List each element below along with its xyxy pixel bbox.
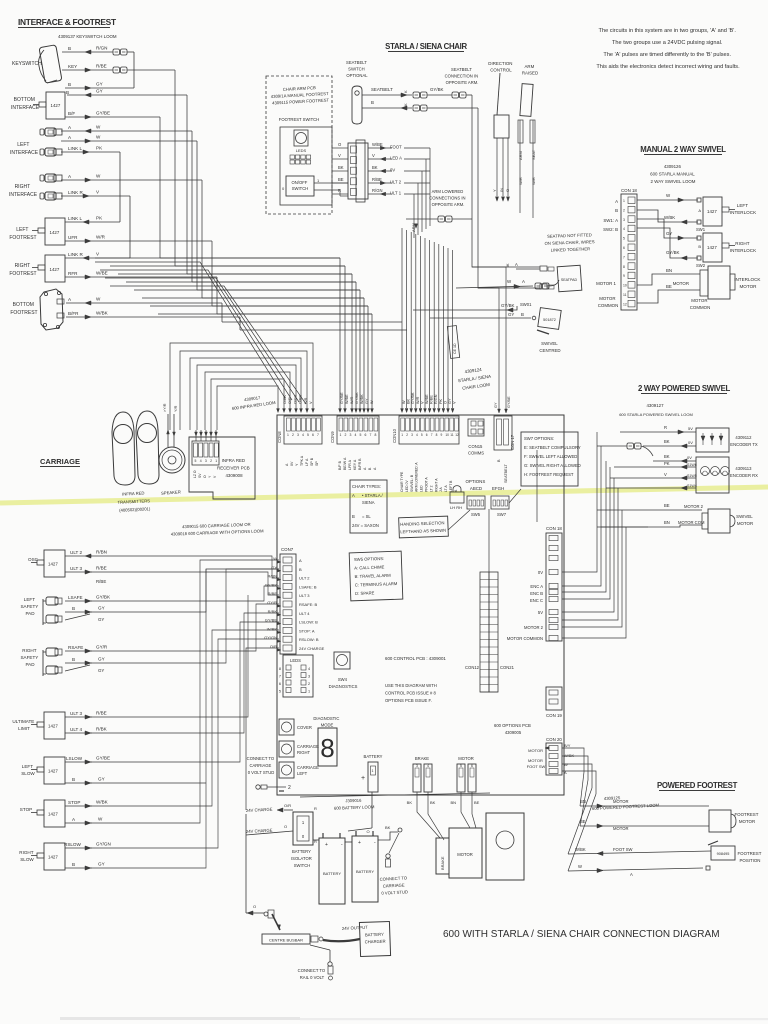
connector CON 18 manual swivel xyxy=(621,188,637,310)
svg-text:IN: IN xyxy=(499,188,504,192)
left safety pad xyxy=(20,597,62,625)
svg-text:600 STARLA POWERED SWIVEL LOOM: 600 STARLA POWERED SWIVEL LOOM xyxy=(619,412,693,417)
svg-text:SW5: SW5 xyxy=(471,512,481,517)
svg-text:BK: BK xyxy=(407,398,411,404)
svg-text:+: + xyxy=(358,840,361,846)
svg-text:LF A: LF A xyxy=(305,458,309,466)
wire verticals CON10 drop xyxy=(401,228,454,413)
svg-text:GY: GY xyxy=(508,312,514,317)
svg-text:B: B xyxy=(72,657,75,662)
svg-text:W/R: W/R xyxy=(518,177,523,185)
svg-text:LINK R: LINK R xyxy=(68,190,83,195)
wire A / W bottom xyxy=(66,297,222,306)
stud connect carriage 0 volt right xyxy=(379,833,409,896)
wire BK 0V rx xyxy=(653,454,696,463)
svg-text:CHAIR TYPE: CHAIR TYPE xyxy=(400,471,404,492)
svg-text:STOP: A: STOP: A xyxy=(299,628,315,633)
svg-text:B/Y: B/Y xyxy=(564,743,571,748)
svg-text:W: W xyxy=(578,864,582,869)
stud 2 xyxy=(256,785,291,791)
svg-text:ULT 4: ULT 4 xyxy=(70,727,83,732)
speaker xyxy=(159,447,185,473)
left interface plugs xyxy=(40,128,62,156)
svg-text:A: A xyxy=(615,199,618,204)
dip switch SW5 xyxy=(467,496,485,517)
wire LINK R / V return xyxy=(65,252,130,261)
svg-text:W/BK: W/BK xyxy=(267,626,278,631)
wire 24v charge O xyxy=(246,824,293,835)
svg-text:501872: 501872 xyxy=(543,318,556,322)
svg-text:GY/BK: GY/BK xyxy=(355,392,359,404)
wire ULT 4 R/BK xyxy=(65,727,108,736)
svg-text:ULT 3: ULT 3 xyxy=(70,566,83,571)
svg-text:SW01: SW01 xyxy=(520,302,532,307)
section title INTERFACE & FOOTREST xyxy=(18,17,117,28)
svg-text:R/GN: R/GN xyxy=(434,394,438,404)
svg-text:R: R xyxy=(338,188,341,193)
wire MOTOR COM long from pcb xyxy=(562,524,597,526)
svg-text:O: O xyxy=(366,829,369,834)
wire BE footrest motor xyxy=(580,819,709,831)
svg-text:IK: IK xyxy=(506,263,510,267)
svg-text:600 CONTROL PCB : 4309001: 600 CONTROL PCB : 4309001 xyxy=(385,656,446,661)
svg-text:KEY: KEY xyxy=(68,64,77,69)
right slow module 1427 xyxy=(19,843,65,870)
svg-text:GY/GN: GY/GN xyxy=(96,842,111,847)
svg-text:W: W xyxy=(96,125,101,130)
svg-text:A: A xyxy=(299,558,302,563)
svg-text:R: R xyxy=(664,425,667,430)
svg-text:MOTOR: MOTOR xyxy=(673,281,689,286)
footrest motor box xyxy=(709,810,736,832)
svg-text:BATTERY: BATTERY xyxy=(364,754,383,759)
svg-text:BATTERY: BATTERY xyxy=(323,871,341,876)
svg-text:1: 1 xyxy=(623,199,625,203)
svg-text:BK: BK xyxy=(372,165,378,170)
wire GY B to swivel centred switch xyxy=(430,312,536,320)
svg-text:R/BE: R/BE xyxy=(96,579,106,584)
svg-text:PK: PK xyxy=(439,398,443,404)
svg-text:B: B xyxy=(352,514,355,519)
labels above CON9 xyxy=(340,392,374,404)
svg-text:1427: 1427 xyxy=(50,230,60,235)
svg-text:Y/R: Y/R xyxy=(174,405,178,412)
svg-text:BRAKE: BRAKE xyxy=(440,856,445,870)
wire B/F / GY-BE xyxy=(65,111,160,120)
svg-text:O/BK: O/BK xyxy=(283,394,287,404)
wire GY return xyxy=(66,89,187,98)
svg-text:S1W5: S1W5 xyxy=(687,474,697,478)
svg-text:PK: PK xyxy=(664,461,670,466)
svg-text:GY: GY xyxy=(98,668,104,673)
bottom footrest plug xyxy=(40,289,64,330)
svg-text:RSAFE: B: RSAFE: B xyxy=(299,602,318,607)
direction control xyxy=(488,61,513,201)
svg-text:1: 1 xyxy=(308,690,310,694)
svg-text:CE 1D: CE 1D xyxy=(453,343,457,354)
connector CON10 xyxy=(392,416,459,492)
svg-text:K: K xyxy=(403,103,408,106)
svg-text:R/BE: R/BE xyxy=(268,591,278,596)
CON7 pin labels xyxy=(264,556,325,651)
wire B GY slow1 xyxy=(65,777,105,786)
svg-text:3: 3 xyxy=(350,433,352,437)
svg-text:908495: 908495 xyxy=(717,852,730,856)
svg-text:O/GY: O/GY xyxy=(293,394,297,404)
svg-text:R/BE: R/BE xyxy=(430,395,434,404)
svg-text:W: W xyxy=(370,400,374,404)
swivel centred switch 501872 xyxy=(537,308,561,353)
svg-text:UFR: UFR xyxy=(68,235,78,240)
svg-text:O: O xyxy=(284,824,287,829)
svg-text:A: A xyxy=(698,208,701,213)
wire RSLOW GY/GN xyxy=(64,842,111,851)
svg-text:BE: BE xyxy=(666,284,672,289)
section title 2 WAY POWERED SWIVEL xyxy=(638,384,730,394)
svg-text:W/BK: W/BK xyxy=(360,394,364,404)
wire B GY slow2 xyxy=(65,862,105,871)
svg-text:1427: 1427 xyxy=(50,267,60,272)
svg-text:6: 6 xyxy=(279,682,281,686)
osc module 1427 xyxy=(28,550,65,577)
svg-text:W/R: W/R xyxy=(531,177,536,185)
svg-text:BE: BE xyxy=(474,800,480,805)
svg-text:W/R: W/R xyxy=(416,396,420,404)
svg-text:4: 4 xyxy=(308,667,310,671)
wire bus interface rows to CON9 columns xyxy=(95,258,372,314)
svg-text:W/BK: W/BK xyxy=(96,800,109,805)
keyswitch wire B / R-GN xyxy=(62,46,134,89)
svg-text:10: 10 xyxy=(623,284,627,288)
svg-text:ULT 3: ULT 3 xyxy=(299,593,310,598)
svg-text:A: A xyxy=(522,279,525,284)
svg-text:CON 18: CON 18 xyxy=(621,188,637,193)
svg-text:SW7: SW7 xyxy=(497,512,507,517)
svg-text:0V: 0V xyxy=(687,455,692,460)
wire W/BE to FOOT xyxy=(332,142,430,150)
diagnostic mode display xyxy=(313,716,340,766)
svg-text:1427: 1427 xyxy=(48,724,58,729)
svg-text:1: 1 xyxy=(340,433,342,437)
wire staircase bus into CON8/CON10 xyxy=(95,262,306,404)
svg-text:7: 7 xyxy=(431,433,433,437)
svg-text:J A: J A xyxy=(439,487,443,492)
svg-text:5V: 5V xyxy=(538,610,543,615)
svg-text:ARM LOWERED: A: ARM LOWERED: A xyxy=(415,462,419,492)
svg-text:SW2: B: SW2: B xyxy=(603,227,618,232)
svg-text:2: 2 xyxy=(210,459,212,463)
wire W to left interlock xyxy=(637,193,701,202)
svg-text:B: B xyxy=(72,862,75,867)
wire W/BK foot sw xyxy=(568,847,711,856)
svg-text:R/BE: R/BE xyxy=(96,566,107,571)
svg-text:B/FR B: B/FR B xyxy=(358,458,362,470)
svg-text:MOTOR: MOTOR xyxy=(458,756,474,761)
svg-text:MOTOR 2: MOTOR 2 xyxy=(684,504,704,509)
wire 24v charge to CON7 xyxy=(246,648,279,810)
seatbelt wire lower xyxy=(362,103,540,288)
svg-text:2: 2 xyxy=(288,785,291,791)
svg-text:4309127: 4309127 xyxy=(646,403,664,408)
svg-text:3: 3 xyxy=(297,433,299,437)
wire BN footrest motor xyxy=(580,772,709,808)
svg-text:O: O xyxy=(203,475,207,478)
svg-text:0V: 0V xyxy=(538,570,543,575)
svg-text:B: B xyxy=(521,312,524,317)
svg-text:LINK L: LINK L xyxy=(68,146,82,151)
svg-text:KEY A: KEY A xyxy=(353,459,357,470)
svg-text:1: 1 xyxy=(372,769,374,773)
svg-text:V: V xyxy=(372,153,375,158)
svg-text:O: O xyxy=(443,401,447,404)
svg-text:GY: GY xyxy=(98,777,105,782)
svg-text:LZ O: LZ O xyxy=(193,470,197,478)
svg-text:R/BN: R/BN xyxy=(96,550,107,555)
connector CON 17 xyxy=(494,416,515,483)
svg-text:O/R: O/R xyxy=(288,397,292,404)
svg-text:W: W xyxy=(98,817,103,822)
svg-text:5: 5 xyxy=(195,459,197,463)
svg-text:STOP: STOP xyxy=(68,800,80,805)
svg-text:6: 6 xyxy=(471,764,473,768)
svg-text:LSLOW: B: LSLOW: B xyxy=(299,620,318,625)
motor small block xyxy=(449,828,482,878)
svg-text:5: 5 xyxy=(421,433,423,437)
connector CON 20 xyxy=(527,737,575,775)
wire sw7 to con12 xyxy=(488,509,490,572)
svg-text:8: 8 xyxy=(375,433,377,437)
wire BE MOTOR 2 xyxy=(597,503,704,510)
control PCB outline xyxy=(277,415,564,795)
svg-text:R/BK: R/BK xyxy=(96,727,108,732)
svg-text:BK: BK xyxy=(430,800,436,805)
svg-text:GY/BK: GY/BK xyxy=(666,250,679,255)
connector CON15 COMMS xyxy=(468,419,484,456)
svg-text:W/BE: W/BE xyxy=(345,394,349,404)
battery isolator switch xyxy=(291,806,317,868)
svg-text:LT 2: LT 2 xyxy=(429,485,433,492)
connector CON7 xyxy=(280,547,296,654)
svg-text:1427: 1427 xyxy=(48,855,58,860)
brake connector pcb xyxy=(413,756,432,792)
svg-text:24V = SAXON: 24V = SAXON xyxy=(352,523,379,528)
svg-text:O: O xyxy=(253,904,256,909)
svg-text:2: 2 xyxy=(623,208,625,212)
svg-text:GY: GY xyxy=(365,398,369,404)
svg-text:CHAIR TYPES:: CHAIR TYPES: xyxy=(352,484,381,489)
svg-text:B: B xyxy=(72,606,75,611)
svg-text:PK: PK xyxy=(96,146,103,151)
wire GY to right interlock xyxy=(637,219,701,240)
svg-text:O/R: O/R xyxy=(284,803,291,808)
svg-text:LEFT B: LEFT B xyxy=(449,480,453,492)
battery 2 xyxy=(352,831,378,902)
wire LINK R / V xyxy=(61,190,130,259)
on-off switch xyxy=(286,176,314,196)
svg-text:DIRECTION CONTROL: DIRECTION CONTROL xyxy=(488,61,513,73)
svg-text:3: 3 xyxy=(411,433,413,437)
wire GY GY/BE into CON17 xyxy=(472,267,511,413)
svg-text:GY: GY xyxy=(96,82,103,87)
svg-text:CON15 COMMS: CON15 COMMS xyxy=(468,444,484,456)
svg-text:B: B xyxy=(68,82,71,87)
svg-text:4: 4 xyxy=(427,764,429,768)
svg-text:CON 19: CON 19 xyxy=(546,713,562,718)
switch SW4 diagnostics xyxy=(329,652,358,689)
svg-text:MOTOR: MOTOR xyxy=(613,826,629,831)
highlighter line across page xyxy=(0,487,768,503)
svg-text:GY: GY xyxy=(494,402,498,408)
svg-text:SP: SP xyxy=(315,461,319,466)
svg-text:CON8: CON8 xyxy=(277,431,282,443)
wire W A footrest xyxy=(568,864,710,877)
svg-text:GY/BE: GY/BE xyxy=(340,392,344,404)
wire W A to seatpad link xyxy=(456,279,559,289)
svg-text:CON 20: CON 20 xyxy=(546,737,562,742)
svg-text:RSLOW: RSLOW xyxy=(64,842,82,847)
svg-text:KEYSWITCH: KEYSWITCH xyxy=(12,61,42,67)
wire R/GN to ULT 1 xyxy=(332,188,430,196)
svg-text:SEATBELT: SEATBELT xyxy=(371,87,393,92)
svg-text:>Y/R: >Y/R xyxy=(163,403,167,412)
svg-text:SP B: SP B xyxy=(310,457,314,466)
svg-text:STOP: STOP xyxy=(20,807,32,812)
wire 24v charge O/R xyxy=(246,803,293,913)
svg-text:ULT 1: ULT 1 xyxy=(390,191,402,196)
svg-text:3: 3 xyxy=(623,218,625,222)
bottom faint band xyxy=(60,1017,300,1020)
svg-text:LT A: LT A xyxy=(444,485,448,492)
svg-text:GY/BK: GY/BK xyxy=(265,582,278,587)
footrest position switch 908495 xyxy=(708,841,735,860)
svg-text:ENC C: ENC C xyxy=(530,598,543,603)
svg-text:5: 5 xyxy=(623,237,625,241)
wire bus pcb CON18 to powered swivel xyxy=(562,432,626,638)
svg-text:MANUAL 2 WAY SWIVEL: MANUAL 2 WAY SWIVEL xyxy=(640,145,726,154)
svg-text:O/BE: O/BE xyxy=(299,394,303,404)
svg-text:B/F: B/F xyxy=(68,111,75,116)
svg-text:W/BE: W/BE xyxy=(425,394,429,404)
svg-text:= SL: = SL xyxy=(362,514,371,519)
svg-text:BE: BE xyxy=(664,503,670,508)
wire LINK L / PK xyxy=(61,146,120,223)
svg-text:MOTOR: MOTOR xyxy=(613,799,629,804)
wire BN MOTOR COM xyxy=(597,520,705,527)
svg-text:8: 8 xyxy=(436,433,438,437)
loom tag chair xyxy=(447,326,459,359)
wire LSAFE GY/BK xyxy=(65,595,111,604)
svg-text:LED 0V: LED 0V xyxy=(405,480,409,492)
svg-text:GY: GY xyxy=(96,89,103,94)
svg-text:BK: BK xyxy=(338,165,344,170)
svg-text:SWIVEL: B: SWIVEL: B xyxy=(410,474,414,492)
svg-text:CONNECT TO CARRIAGE 0 VOLT STU: CONNECT TO CARRIAGE 0 VOLT STUD xyxy=(247,756,276,775)
svg-text:9: 9 xyxy=(441,433,443,437)
svg-text:GY/R: GY/R xyxy=(96,645,108,650)
wire B/FR / W-BK xyxy=(66,311,240,320)
wire STOP W/BK xyxy=(65,800,109,809)
chair arm output connector xyxy=(348,140,368,202)
wire R 5V xyxy=(620,425,696,434)
svg-text:GY/BE: GY/BE xyxy=(96,756,110,761)
svg-text:4309137 KEYSWITCH LOOM: 4309137 KEYSWITCH LOOM xyxy=(58,34,117,39)
svg-text:5: 5 xyxy=(307,433,309,437)
svg-text:4: 4 xyxy=(200,459,202,463)
svg-text:STARLA / SIENA CHAIR: STARLA / SIENA CHAIR xyxy=(385,42,467,51)
wire LSLOW GY/BE xyxy=(65,756,110,765)
encoder tx box xyxy=(696,428,729,452)
battery terminal pcb xyxy=(361,754,383,792)
svg-text:V: V xyxy=(338,153,341,158)
svg-text:S/R: S/R xyxy=(304,397,308,404)
svg-text:0V: 0V xyxy=(390,168,395,173)
svg-text:+: + xyxy=(325,842,328,848)
svg-text:1: 1 xyxy=(401,433,403,437)
svg-text:LEDS: LEDS xyxy=(290,658,301,663)
svg-text:BN: BN xyxy=(666,268,672,273)
connector CON9 xyxy=(330,416,379,470)
svg-text:MOTOR 1: MOTOR 1 xyxy=(596,281,616,286)
svg-text:B: B xyxy=(72,777,75,782)
svg-text:LINK R: LINK R xyxy=(68,252,83,257)
svg-text:5: 5 xyxy=(460,764,462,768)
svg-text:FOOTREST SWITCH: FOOTREST SWITCH xyxy=(279,117,319,122)
speaker wires Y/R xyxy=(163,403,178,447)
svg-text:GY/GN: GY/GN xyxy=(264,635,277,640)
svg-text:ULT 2: ULT 2 xyxy=(390,180,402,185)
svg-text:BK: BK xyxy=(385,825,391,830)
svg-text:GY: GY xyxy=(98,617,104,622)
svg-text:TPK A: TPK A xyxy=(300,455,304,466)
svg-text:ENC B: ENC B xyxy=(530,591,543,596)
svg-text:B: B xyxy=(698,244,701,249)
svg-text:CON9: CON9 xyxy=(330,431,335,443)
svg-text:FOOT: FOOT xyxy=(390,145,402,150)
svg-text:CARRIAGE: CARRIAGE xyxy=(40,457,80,466)
wire B GY pad2 xyxy=(65,657,105,674)
chair arm pcb dashed box xyxy=(266,76,332,214)
wire RSAFE GY/R xyxy=(65,645,108,654)
cover switch xyxy=(279,719,312,735)
svg-text:2: 2 xyxy=(292,433,294,437)
svg-text:CON 17: CON 17 xyxy=(510,434,515,450)
svg-text:ARM: ARM xyxy=(518,151,523,160)
svg-text:B/F B: B/F B xyxy=(338,460,342,470)
svg-text:1: 1 xyxy=(287,433,289,437)
wire LINK L / PK return xyxy=(65,216,120,225)
svg-text:SEATBELT: SEATBELT xyxy=(504,463,508,483)
svg-text:W: W xyxy=(96,297,101,302)
stop module 1427 xyxy=(20,800,65,827)
wires chair loom down xyxy=(414,148,430,238)
wire V to LED A xyxy=(332,153,430,161)
svg-text:ULT 3: ULT 3 xyxy=(70,711,83,716)
wire A W stop xyxy=(65,817,103,826)
wire B / GY xyxy=(65,82,134,91)
svg-text:RIGHT A: RIGHT A xyxy=(434,478,438,492)
svg-text:2: 2 xyxy=(345,433,347,437)
svg-text:POWERED FOOTREST: POWERED FOOTREST xyxy=(657,781,738,790)
svg-text:4: 4 xyxy=(302,433,304,437)
svg-text:SW1: A: SW1: A xyxy=(603,218,618,223)
carriage left switch xyxy=(279,762,320,778)
svg-text:LSAFE: B: LSAFE: B xyxy=(299,584,317,589)
svg-text:W: W xyxy=(402,400,406,404)
wire BE to interlock motor xyxy=(637,284,700,303)
wire ULT 3 R/BE xyxy=(65,566,107,585)
svg-text:W/R: W/R xyxy=(96,235,106,240)
section title STARLA / SIENA CHAIR xyxy=(385,42,467,52)
